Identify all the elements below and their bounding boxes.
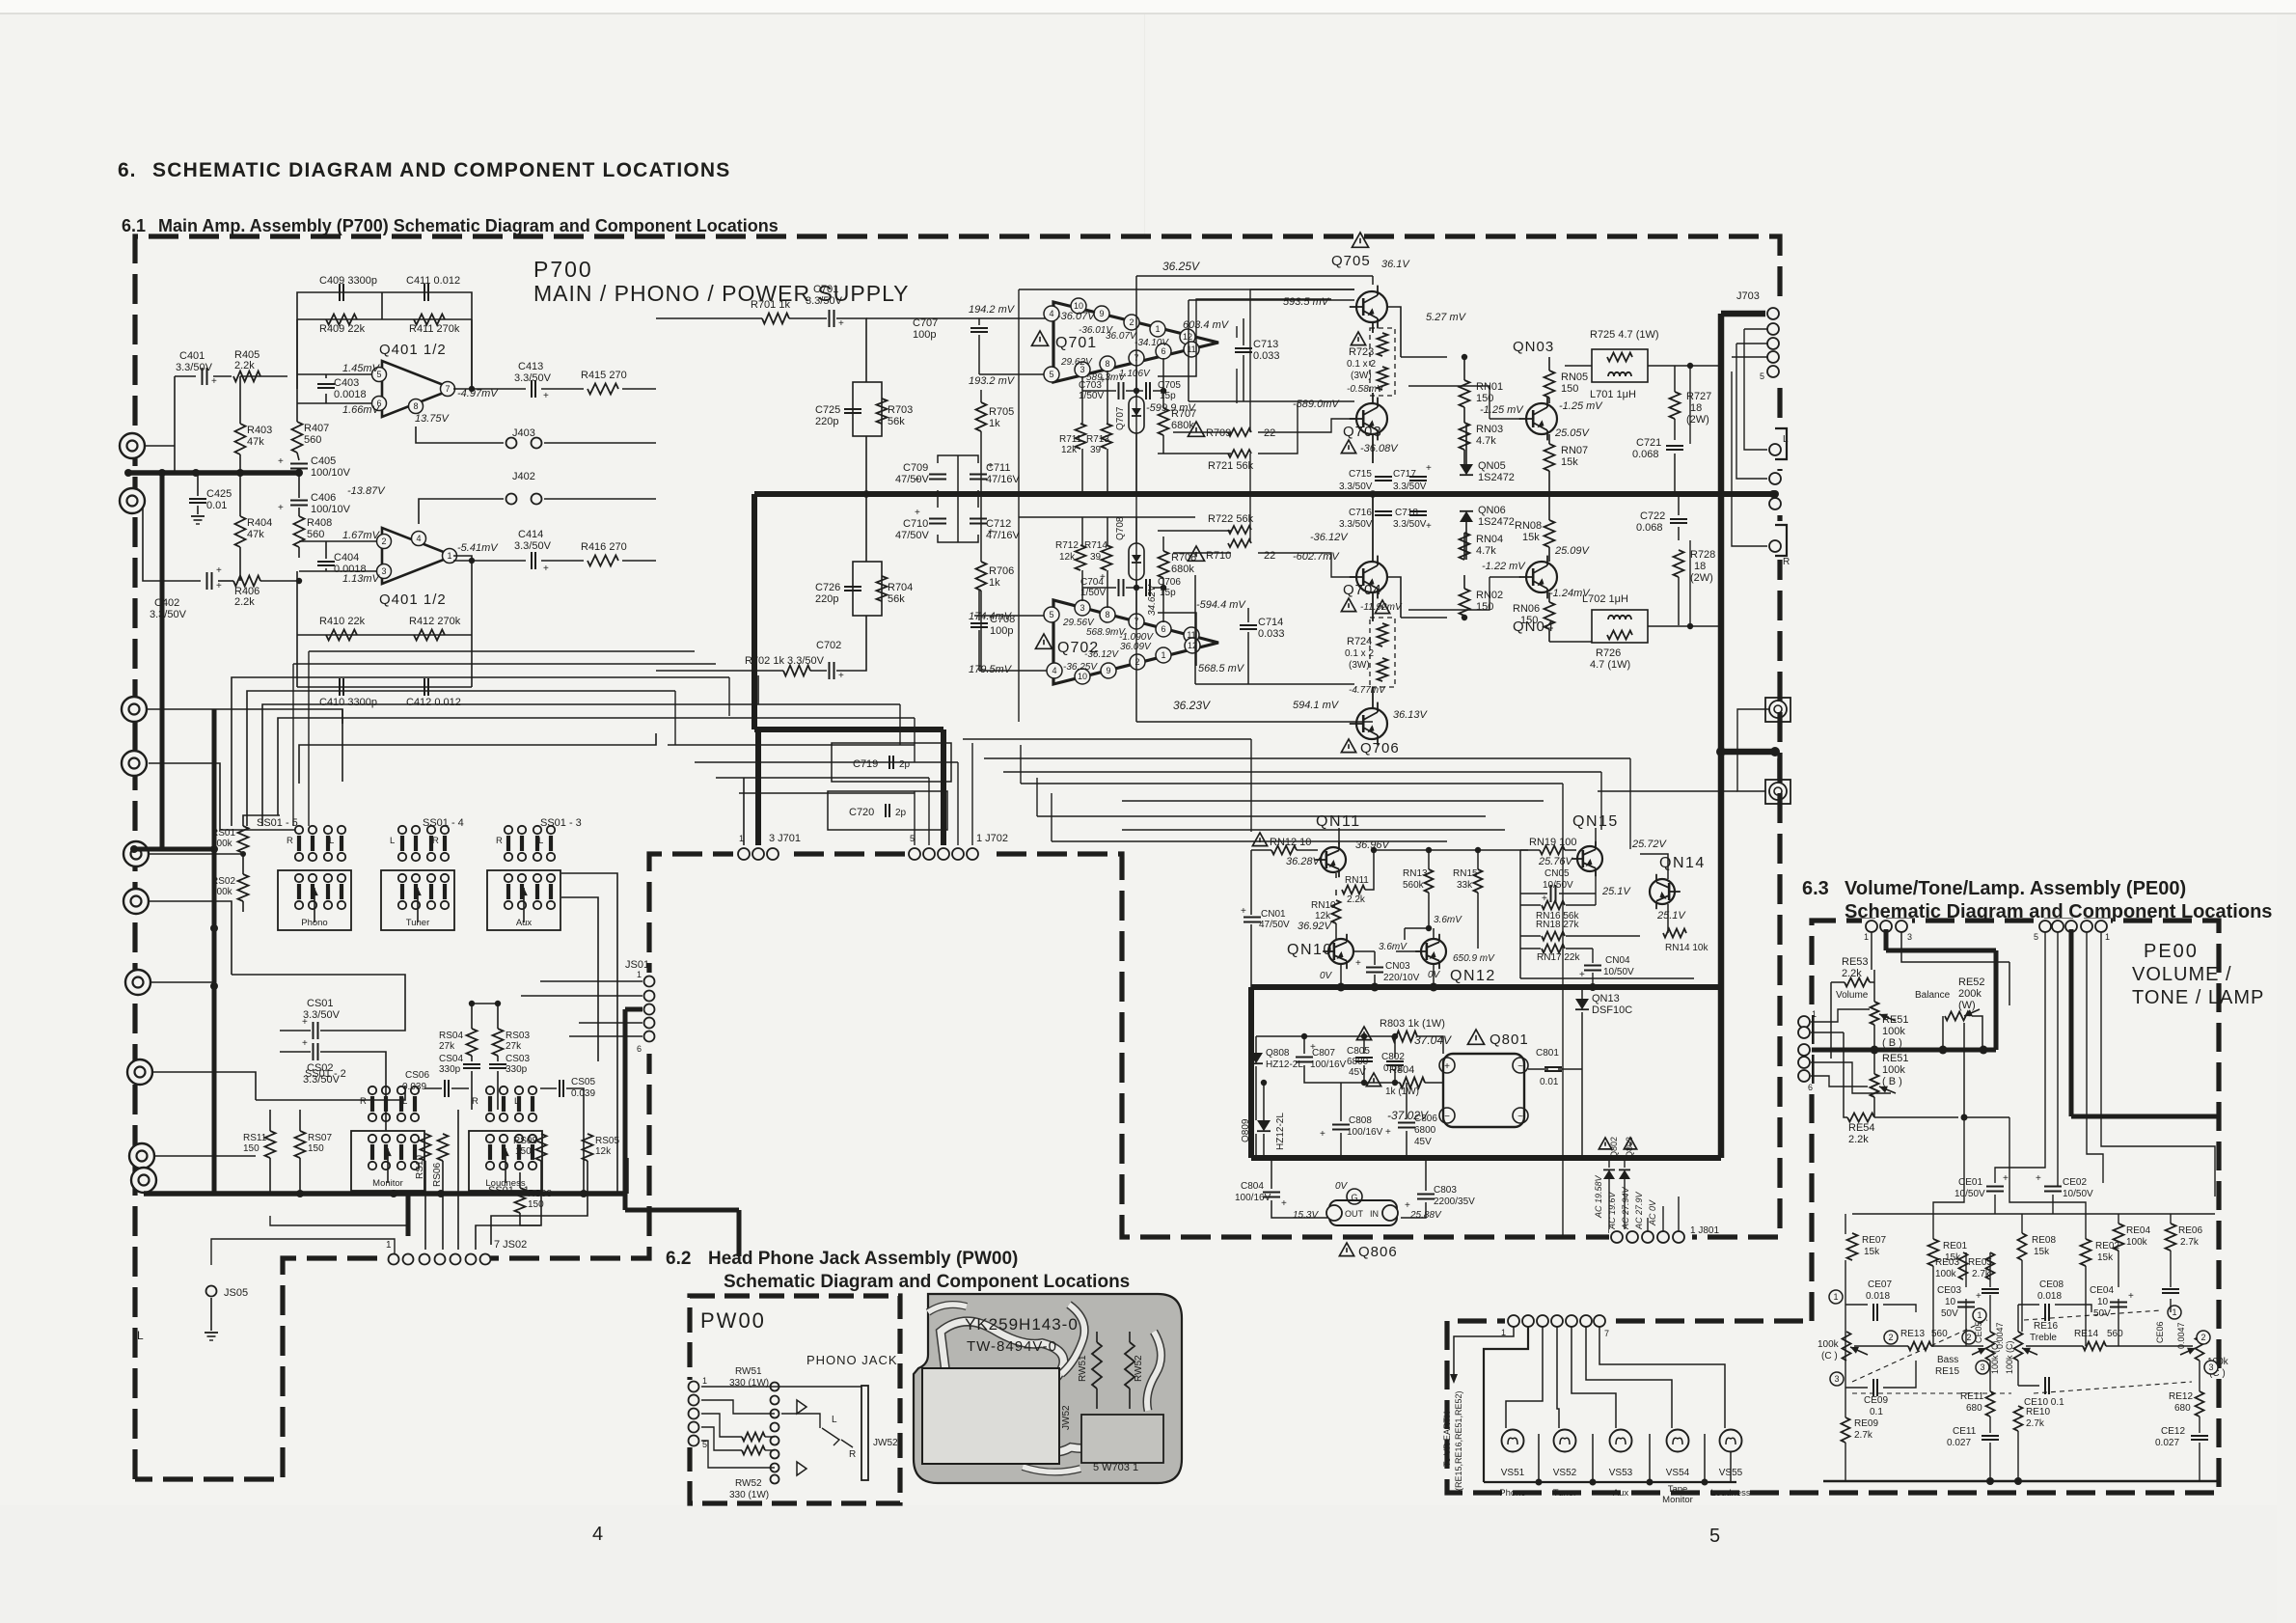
- svg-text:MAIN / PHONO / POWER SUPPLY: MAIN / PHONO / POWER SUPPLY: [533, 281, 910, 306]
- svg-text:100k (C): 100k (C): [1990, 1340, 2000, 1374]
- svg-text:0.01: 0.01: [206, 500, 227, 511]
- svg-text:1S2472: 1S2472: [1478, 472, 1515, 483]
- svg-text:RE01: RE01: [1943, 1241, 1967, 1252]
- tone network wires: [1845, 1214, 1846, 1234]
- svg-text:10/50V: 10/50V: [1603, 967, 1634, 977]
- svg-text:3.3/50V: 3.3/50V: [1339, 519, 1373, 530]
- svg-text:R725 4.7 (1W): R725 4.7 (1W): [1590, 329, 1659, 341]
- wires into J703: [1744, 328, 1767, 330]
- svg-text:RE53: RE53: [1842, 956, 1869, 968]
- svg-text:150: 150: [1561, 383, 1578, 395]
- capacitor C701 electrolytic: [829, 310, 831, 327]
- switch SS01-4 inner contacts: [400, 884, 404, 899]
- svg-text:150: 150: [1520, 615, 1538, 626]
- svg-text:CE03: CE03: [1937, 1285, 1961, 1296]
- svg-text:TONE / LAMP: TONE / LAMP: [2132, 987, 2264, 1008]
- switch SS01-5 inner contacts: [297, 884, 301, 899]
- Q701 pin 10: [1071, 298, 1086, 314]
- svg-text:Monitor: Monitor: [1662, 1495, 1693, 1505]
- svg-text:Phono: Phono: [301, 918, 327, 928]
- box C726 R704: [853, 562, 882, 616]
- svg-text:CN04: CN04: [1605, 955, 1630, 966]
- svg-text:(RE15,RE16,RE51,RE52): (RE15,RE16,RE51,RE52): [1454, 1390, 1463, 1491]
- label Q806: [1339, 1243, 1353, 1256]
- svg-text:Q704: Q704: [1343, 582, 1382, 598]
- resistor RW51: [742, 1433, 765, 1442]
- Q702 pin 1: [1156, 647, 1171, 663]
- svg-text:100k (C): 100k (C): [2005, 1340, 2014, 1374]
- svg-text:RN11: RN11: [1345, 875, 1369, 886]
- svg-text:3.3/50V: 3.3/50V: [806, 295, 843, 307]
- wire jack aux L: [149, 853, 243, 855]
- svg-text:-11.92mV: -11.92mV: [1360, 602, 1403, 613]
- pin 6: [372, 397, 387, 411]
- svg-text:C805: C805: [1347, 1046, 1370, 1057]
- capacitors C710 C712: [929, 518, 946, 520]
- heavy vertical to JS02: [406, 1194, 411, 1236]
- box C725 R703: [853, 382, 882, 436]
- svg-text:7 JS02: 7 JS02: [494, 1239, 527, 1251]
- svg-text:100/10V: 100/10V: [311, 504, 351, 515]
- svg-text:AC 27.94V: AC 27.94V: [1621, 1186, 1630, 1230]
- balance box: [1942, 1016, 1944, 1050]
- pin 5: [372, 368, 387, 382]
- svg-text:PHONO JACK: PHONO JACK: [806, 1353, 898, 1367]
- wire opamp1 output: [453, 388, 472, 390]
- jumper JS05: [206, 1286, 217, 1297]
- svg-text:3: 3: [381, 566, 386, 576]
- svg-text:+: +: [1976, 1291, 1982, 1302]
- svg-text:+: +: [543, 564, 549, 574]
- diode Q707: [1129, 397, 1144, 433]
- svg-text:L702 1μH: L702 1μH: [1582, 593, 1628, 605]
- resistor RE07: [1847, 1233, 1858, 1260]
- svg-text:QN12: QN12: [1450, 968, 1496, 984]
- svg-text:37.04V: 37.04V: [1414, 1033, 1452, 1047]
- psu wires: [1256, 1035, 1392, 1037]
- svg-text:CE06: CE06: [2155, 1321, 2165, 1343]
- resistor RN14: [1663, 929, 1686, 938]
- risers above J702: [914, 791, 916, 845]
- svg-text:3.3/50V: 3.3/50V: [1393, 519, 1427, 530]
- svg-text:RN15: RN15: [1453, 868, 1478, 879]
- svg-text:RE03: RE03: [1935, 1257, 1959, 1268]
- svg-text:560: 560: [2107, 1329, 2123, 1339]
- Q701 pin 6: [1156, 344, 1171, 359]
- svg-text:QN05: QN05: [1478, 460, 1506, 472]
- inductor L702: [1608, 616, 1631, 619]
- svg-text:9: 9: [1099, 309, 1104, 318]
- svg-text:R404: R404: [247, 517, 272, 529]
- svg-text:+: +: [278, 503, 284, 513]
- svg-text:+: +: [2003, 1173, 2009, 1184]
- warning Q704b: [1341, 598, 1355, 612]
- svg-text:650.9 mV: 650.9 mV: [1453, 953, 1495, 964]
- input jack tape R: [127, 1059, 152, 1085]
- svg-text:6.: 6.: [118, 159, 137, 181]
- svg-text:C713: C713: [1253, 339, 1278, 350]
- wire long run to J701: [743, 778, 745, 845]
- svg-text:47/50V: 47/50V: [895, 530, 930, 541]
- label Q706: [1341, 739, 1355, 753]
- svg-text:6.2: 6.2: [666, 1249, 691, 1269]
- balance drop wires: [1933, 1117, 1964, 1214]
- svg-text:10/50V: 10/50V: [2063, 1189, 2093, 1199]
- svg-text:6800: 6800: [1414, 1125, 1436, 1136]
- svg-text:Phono: Phono: [1499, 1488, 1525, 1499]
- svg-text:100k: 100k: [1882, 1064, 1905, 1076]
- svg-text:5: 5: [1760, 371, 1764, 381]
- label R723: [1351, 332, 1365, 345]
- svg-text:C702: C702: [816, 640, 841, 651]
- left connector wires: [1811, 1009, 1870, 1022]
- switch SS01-4 box: [381, 870, 454, 930]
- svg-text:1k: 1k: [989, 577, 1000, 589]
- switch SS01-1 box: [469, 1131, 542, 1191]
- svg-text:( B ): ( B ): [1882, 1076, 1902, 1087]
- input jack aux R: [123, 889, 149, 914]
- capacitor C405 electrolytic: [290, 463, 308, 465]
- svg-text:15.3V: 15.3V: [1293, 1210, 1319, 1221]
- capacitor C410: [339, 678, 341, 696]
- capacitor C406 electrolytic: [290, 500, 308, 502]
- svg-text:29.62V: 29.62V: [1060, 357, 1093, 368]
- svg-text:47/16V: 47/16V: [986, 530, 1021, 541]
- svg-text:J703: J703: [1736, 290, 1760, 302]
- svg-text:4: 4: [416, 534, 421, 543]
- Q701 pin 4: [1044, 306, 1059, 321]
- svg-text:2: 2: [1134, 657, 1139, 667]
- resistor R725: [1607, 353, 1632, 362]
- input jack tuner R: [122, 751, 147, 776]
- svg-text:VS51: VS51: [1501, 1468, 1525, 1478]
- svg-text:-34.10V: -34.10V: [1134, 338, 1169, 348]
- svg-text:RW51: RW51: [1078, 1355, 1088, 1382]
- svg-text:QN15: QN15: [1572, 813, 1619, 830]
- svg-text:1k: 1k: [989, 418, 1000, 429]
- svg-text:2.2k: 2.2k: [1347, 894, 1366, 905]
- svg-text:R703: R703: [888, 404, 913, 416]
- svg-text:RN05: RN05: [1561, 371, 1588, 383]
- capacitor C402 electrolytic: [206, 572, 208, 590]
- svg-text:1 J702: 1 J702: [976, 833, 1008, 844]
- svg-text:(2W): (2W): [1690, 572, 1713, 584]
- capacitor CS03: [489, 1063, 506, 1065]
- svg-text:Q801: Q801: [1490, 1032, 1529, 1048]
- svg-text:27k: 27k: [506, 1041, 522, 1052]
- wires to sleeve: [775, 1386, 861, 1388]
- svg-text:CS04: CS04: [439, 1054, 463, 1064]
- svg-text:36.28V: 36.28V: [1286, 856, 1322, 867]
- wire opamp outputs to output stage: [1158, 340, 1196, 376]
- svg-text:C716: C716: [1349, 508, 1372, 518]
- input jack tuner L: [122, 697, 147, 722]
- svg-text:CE09: CE09: [1864, 1395, 1888, 1406]
- svg-text:18: 18: [1690, 402, 1702, 414]
- wire mesh vertical trunk 1: [342, 709, 343, 724]
- svg-text:+: +: [1426, 463, 1432, 474]
- svg-text:RS09: RS09: [513, 1136, 537, 1146]
- lamp VS55: [1720, 1430, 1742, 1452]
- resistor RE10: [2014, 1406, 2023, 1431]
- warning Q702: [1035, 634, 1052, 648]
- svg-text:RE51: RE51: [1882, 1053, 1909, 1064]
- wire input to R701: [656, 317, 762, 319]
- svg-text:220p: 220p: [815, 593, 838, 605]
- wire opamp2 out: [453, 556, 472, 635]
- svg-text:-1.25 mV: -1.25 mV: [1480, 404, 1524, 416]
- resistor R804: [1366, 1073, 1380, 1087]
- capacitor C412: [424, 678, 425, 696]
- svg-text:L701 1μH: L701 1μH: [1590, 389, 1636, 400]
- resistor RN05: [1544, 371, 1555, 398]
- wires above JS02: [424, 1161, 426, 1252]
- jack sleeve bar: [861, 1386, 868, 1480]
- resistor RN02: [1460, 589, 1470, 616]
- mid band horizontal extra: [1021, 783, 1563, 784]
- svg-text:RN18 27k: RN18 27k: [1536, 920, 1579, 930]
- resistor R406: [233, 576, 260, 587]
- capacitor C708: [970, 622, 988, 624]
- svg-text:+: +: [1320, 1129, 1326, 1140]
- svg-text:594.1 mV: 594.1 mV: [1293, 700, 1340, 711]
- Q702 pin 10: [1075, 669, 1090, 684]
- svg-text:R: R: [360, 1096, 367, 1107]
- svg-text:R726: R726: [1596, 647, 1621, 659]
- svg-text:-594.4 mV: -594.4 mV: [1196, 599, 1246, 611]
- svg-text:RN14 10k: RN14 10k: [1665, 943, 1708, 953]
- headphone jack contacts: [771, 1383, 779, 1391]
- svg-text:2: 2: [381, 536, 386, 546]
- svg-text:1.45mV: 1.45mV: [342, 363, 381, 374]
- wires QN03 QN04 base: [1408, 386, 1490, 419]
- svg-text:15k: 15k: [1522, 532, 1540, 543]
- svg-text:JS05: JS05: [224, 1287, 248, 1299]
- svg-text:RS06: RS06: [432, 1163, 443, 1187]
- svg-text:22: 22: [1264, 427, 1275, 439]
- svg-text:2.2k: 2.2k: [234, 596, 255, 608]
- svg-text:150: 150: [1476, 393, 1493, 404]
- svg-text:C717: C717: [1393, 469, 1416, 480]
- capacitor CE09: [1872, 1379, 1874, 1396]
- svg-text:9: 9: [1106, 666, 1110, 675]
- transistor QN04: [1526, 562, 1557, 592]
- jack contact arms: [701, 1386, 775, 1388]
- wires C703 C705 row: [1082, 390, 1116, 392]
- svg-text:3.3/50V: 3.3/50V: [176, 362, 213, 373]
- Q701 pin 1: [1150, 321, 1165, 337]
- svg-text:RN12 10: RN12 10: [1270, 837, 1311, 848]
- center pot bass 100k C: [1986, 1332, 1995, 1361]
- resistor RE11: [1986, 1391, 1995, 1417]
- svg-text:-36.12V: -36.12V: [1084, 649, 1119, 660]
- pin 3: [377, 564, 392, 579]
- svg-text:PW00: PW00: [700, 1308, 766, 1333]
- svg-text:C714: C714: [1258, 617, 1283, 628]
- resistor R714: [1102, 545, 1112, 570]
- resistor RS11: [265, 1131, 276, 1158]
- svg-text:C718: C718: [1395, 508, 1418, 518]
- svg-text:3: 3: [1980, 1362, 1984, 1372]
- pin 7: [441, 382, 455, 397]
- resistor R409: [326, 315, 357, 325]
- resistor RE13: [1908, 1342, 1931, 1351]
- capacitor CE04: [2110, 1302, 2127, 1304]
- capacitor CE03: [1957, 1302, 1975, 1304]
- switch SS01-5 upper contacts: [297, 836, 301, 851]
- svg-text:560: 560: [307, 529, 324, 540]
- Q701 pin 12: [1180, 329, 1195, 344]
- svg-text:C808: C808: [1349, 1115, 1372, 1126]
- svg-text:R704: R704: [888, 582, 913, 593]
- capacitor C726: [844, 586, 861, 588]
- wire jack tape L: [150, 981, 214, 983]
- svg-text:6800: 6800: [1347, 1057, 1369, 1067]
- svg-text:R416 270: R416 270: [581, 541, 627, 553]
- lamp VS53: [1610, 1430, 1632, 1452]
- svg-text:CS05: CS05: [571, 1077, 595, 1087]
- svg-text:603.4 mV: 603.4 mV: [1183, 319, 1230, 331]
- resistor RN11: [1342, 886, 1365, 894]
- svg-text:Monitor: Monitor: [372, 1178, 403, 1189]
- svg-text:0.039: 0.039: [402, 1082, 426, 1092]
- svg-text:RW51: RW51: [735, 1366, 762, 1377]
- svg-text:QN06: QN06: [1478, 505, 1506, 516]
- wires into JS01: [540, 980, 642, 982]
- svg-text:R728: R728: [1690, 549, 1715, 561]
- speaker connector R bracket: [1765, 521, 1783, 560]
- svg-text:CE07: CE07: [1868, 1279, 1892, 1290]
- svg-text:560: 560: [304, 434, 321, 446]
- svg-text:RE15: RE15: [1935, 1366, 1959, 1377]
- svg-text:RE16: RE16: [2034, 1321, 2058, 1332]
- svg-text:25.76V: 25.76V: [1538, 856, 1574, 867]
- svg-text:47k: 47k: [247, 529, 264, 540]
- PE00 left connector: [1796, 1013, 1812, 1085]
- resistor R711: [1076, 424, 1086, 449]
- connector PE00 top right: [2036, 919, 2111, 934]
- svg-text:220/10V: 220/10V: [1383, 973, 1420, 983]
- transistor QN15: [1577, 846, 1602, 871]
- svg-text:RN03: RN03: [1476, 424, 1503, 435]
- resistor RN13: [1425, 869, 1434, 893]
- svg-text:1: 1: [637, 970, 642, 979]
- capacitor CE01: [1986, 1186, 2004, 1188]
- capacitor C702 electrolytic: [829, 662, 831, 679]
- resistor RN15: [1474, 869, 1483, 893]
- svg-text:R403: R403: [247, 425, 272, 436]
- svg-text:Bass: Bass: [1937, 1355, 1958, 1365]
- svg-text:2p: 2p: [899, 759, 911, 770]
- zener Q808: [1249, 1053, 1263, 1063]
- switch SS01-1 upper contacts: [488, 1096, 492, 1112]
- svg-text:Tuner: Tuner: [1553, 1488, 1576, 1499]
- svg-text:25.88V: 25.88V: [1409, 1210, 1442, 1221]
- resistor R404: [235, 516, 246, 547]
- diode QN06: [1460, 511, 1473, 522]
- wire to rail: [865, 436, 867, 494]
- svg-text:36.07V: 36.07V: [1106, 331, 1137, 342]
- svg-text:100p: 100p: [913, 329, 936, 341]
- resistor RS06: [438, 1134, 449, 1161]
- PCB bottom connector rect: [1081, 1415, 1163, 1463]
- svg-text:C802: C802: [1381, 1052, 1405, 1062]
- connector J801: [1609, 1229, 1692, 1245]
- loop wires Q701: [1019, 289, 1354, 290]
- svg-text:+: +: [838, 318, 844, 329]
- svg-text:C712: C712: [986, 518, 1011, 530]
- svg-text:47/50V: 47/50V: [895, 474, 930, 485]
- svg-text:4: 4: [592, 1524, 603, 1545]
- svg-text:RN13: RN13: [1403, 868, 1428, 879]
- wire jack tuner L: [147, 708, 214, 710]
- svg-text:330p: 330p: [506, 1064, 528, 1075]
- wires Q701 input: [866, 317, 974, 319]
- wire runs right of switches: [561, 873, 617, 1194]
- resistor RE06: [2166, 1224, 2176, 1251]
- svg-text:RN10: RN10: [1311, 900, 1336, 911]
- capacitor C802: [1386, 1060, 1404, 1062]
- svg-text:0V: 0V: [1335, 1181, 1349, 1192]
- svg-text:0.033: 0.033: [1258, 628, 1285, 640]
- PE00 riser wires: [1995, 932, 2045, 1183]
- svg-text:0.018: 0.018: [1866, 1291, 1890, 1302]
- svg-text:36.13V: 36.13V: [1393, 709, 1429, 721]
- svg-text:R713: R713: [1086, 434, 1109, 445]
- lamp pin2 ground path: [1484, 1327, 1528, 1482]
- capacitor CE02: [2044, 1186, 2062, 1188]
- svg-text:C402: C402: [154, 597, 179, 609]
- svg-text:R: R: [432, 836, 439, 846]
- svg-text:3.3/50V: 3.3/50V: [303, 1074, 341, 1086]
- capacitor C807: [1296, 1057, 1313, 1059]
- warning Q701: [1031, 331, 1048, 345]
- heavy wire JS01 bottom to PW00: [625, 1208, 739, 1213]
- svg-text:25.72V: 25.72V: [1631, 839, 1668, 850]
- svg-text:R: R: [849, 1449, 856, 1460]
- svg-text:(3W): (3W): [1351, 371, 1372, 381]
- svg-text:JW52: JW52: [1061, 1405, 1072, 1430]
- resistor R702: [783, 666, 810, 676]
- Q702 pin 7: [1129, 614, 1144, 629]
- svg-text:Aux: Aux: [516, 918, 533, 928]
- svg-text:5: 5: [2034, 932, 2038, 942]
- svg-text:CN03: CN03: [1385, 961, 1410, 972]
- svg-text:CS01: CS01: [307, 998, 334, 1009]
- svg-text:12k: 12k: [595, 1146, 612, 1157]
- svg-text:5.27 mV: 5.27 mV: [1426, 312, 1467, 323]
- capacitor C409: [339, 284, 341, 301]
- svg-text:C722: C722: [1640, 510, 1665, 522]
- svg-text:PE00: PE00: [2144, 941, 2199, 962]
- svg-text:2p: 2p: [895, 808, 907, 818]
- svg-text:4: 4: [1049, 309, 1053, 318]
- resistor R708: [1159, 551, 1169, 578]
- volume pot RE51 lower: [1871, 1074, 1879, 1097]
- svg-text:150: 150: [1476, 601, 1493, 613]
- capacitor CE12: [2191, 1435, 2208, 1437]
- svg-text:R: R: [1783, 557, 1790, 567]
- input jack phono L: [120, 433, 145, 458]
- wires L702 box: [1549, 641, 1592, 643]
- svg-text:C405: C405: [311, 455, 336, 467]
- input jack out R: [131, 1168, 156, 1193]
- switch SS01-3 upper contacts: [506, 836, 510, 851]
- Q702 pin 3: [1075, 600, 1090, 616]
- resistor R704: [877, 576, 888, 601]
- svg-text:C801: C801: [1536, 1048, 1559, 1059]
- diode QN13: [1575, 999, 1589, 1009]
